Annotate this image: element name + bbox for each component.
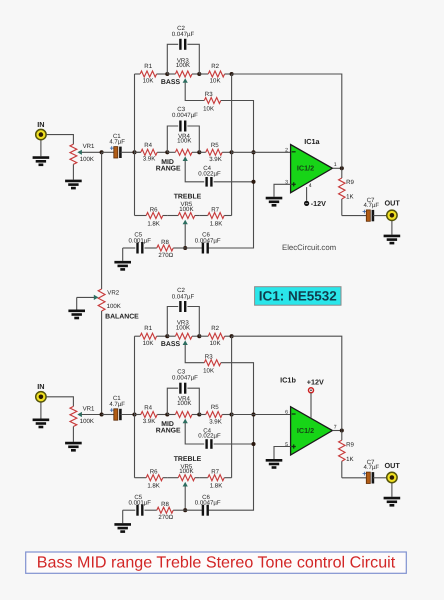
svg-text:10K: 10K [143,78,154,85]
svg-text:10K: 10K [203,105,214,112]
svg-text:100K: 100K [80,156,94,163]
svg-text:R7: R7 [211,469,219,476]
svg-text:IC1a: IC1a [304,137,320,146]
svg-text:VR1: VR1 [83,143,95,150]
svg-text:R6: R6 [150,469,158,476]
junction [251,442,255,446]
non-inverting input marker + [292,444,296,448]
wire [342,477,367,479]
svg-text:TREBLE: TREBLE [174,194,202,201]
wire [121,414,141,416]
wire [167,44,178,74]
junction [197,412,201,416]
wire [102,414,114,416]
wiper arrow VR3 [183,340,188,345]
wire [310,393,312,418]
resistor R8 270Ω [145,507,186,513]
ground [266,460,283,467]
wire [214,443,254,445]
svg-text:R2: R2 [211,63,219,70]
capacitor C4 0.022µF [207,439,212,449]
op-amp IC1b (IC1/2 NE5532) [291,407,333,455]
wire [123,247,136,249]
svg-text:2: 2 [285,147,288,153]
ground [384,236,401,243]
ground [68,311,85,318]
capacitor C4 0.022µF [207,177,212,187]
svg-text:100K: 100K [177,138,191,145]
resistor R1 10K [135,71,168,77]
ground [33,158,50,165]
resistor R3 10K [204,360,221,366]
wire [82,414,102,416]
wire [185,83,204,101]
wire [208,363,253,511]
svg-text:R7: R7 [211,207,219,214]
svg-text:+: + [110,406,114,415]
wire [72,427,74,442]
junction [165,72,169,76]
capacitor C1 4.7µF [114,147,121,158]
svg-text:10K: 10K [143,340,154,347]
svg-text:R1: R1 [144,325,152,332]
wire [82,151,102,153]
svg-text:IN: IN [37,120,44,129]
resistor R8 270Ω [145,245,186,251]
ground [114,262,131,269]
svg-text:ElecCircuit.com: ElecCircuit.com [282,243,336,252]
junction [197,72,201,76]
resistor R7 1.8K [199,213,231,219]
svg-text:10K: 10K [210,78,221,85]
ground [114,524,131,531]
wire [134,336,136,478]
svg-text:100K: 100K [176,324,190,331]
junction [100,412,104,416]
resistor R4 3.9K [135,149,168,155]
wire [232,151,291,153]
resistor R5 3.9K [199,149,231,155]
svg-text:0.001µF: 0.001µF [129,237,152,244]
svg-text:+: + [110,143,114,152]
svg-text:BASS: BASS [161,79,181,86]
junction [197,150,201,154]
potentiometer VR1 100K [70,144,77,164]
svg-text:100K: 100K [176,62,190,69]
wire [231,74,233,216]
svg-text:OUT: OUT [384,199,400,208]
wire [332,430,341,432]
wire [77,296,94,298]
svg-text:IC1/2: IC1/2 [297,164,314,173]
svg-text:6: 6 [285,410,288,416]
svg-text:1.8K: 1.8K [210,220,223,227]
terminal -12V [304,201,309,206]
svg-text:R8: R8 [161,239,169,246]
svg-text:7: 7 [334,424,337,430]
junction [230,412,234,416]
wire [306,187,308,201]
resistor R6 1.8K [135,475,168,481]
potentiometer VR4 100K MID [167,149,199,155]
inverting input marker - [292,151,296,153]
capacitor C3 0.0047µF [180,121,185,132]
svg-text:0.022µF: 0.022µF [198,433,221,440]
capacitor C7 4.7µF [366,472,373,483]
junction [230,72,234,76]
wire [122,510,124,523]
wire [167,126,178,152]
wiper arrow VR1 [77,150,82,155]
wire [391,221,393,235]
junction [100,150,104,154]
svg-text:-12V: -12V [311,199,326,208]
svg-text:BASS: BASS [161,341,181,348]
wiper arrow VR5 [183,482,188,487]
junction [230,150,234,154]
wire [76,297,78,309]
potentiometer VR5 100K TREBLE [167,475,199,481]
potentiometer VR3 100K BASS [167,333,199,339]
non-inverting input marker + [292,182,296,186]
svg-text:+: + [362,469,366,478]
wire [208,101,253,249]
junction [340,428,344,432]
svg-text:3.9K: 3.9K [209,418,222,425]
svg-text:R5: R5 [211,142,219,149]
svg-text:1.8K: 1.8K [210,483,223,490]
svg-text:10K: 10K [203,368,214,375]
junction [132,150,136,154]
svg-text:Bass MID range Treble Stereo T: Bass MID range Treble Stereo Tone contro… [37,553,396,571]
resistor R1 10K [135,333,168,339]
junction [183,508,187,512]
ground [65,443,82,450]
wire [232,414,291,416]
svg-text:IC1/2: IC1/2 [297,426,314,435]
wire [134,74,136,216]
wire [231,336,233,478]
input jack J2 IN [36,392,46,402]
wire [101,311,103,415]
svg-text:10K: 10K [210,340,221,347]
svg-text:R4: R4 [144,142,152,149]
potentiometer VR3 100K BASS [167,71,199,77]
wire [102,151,114,153]
svg-text:1: 1 [334,162,337,168]
input jack J1 IN [36,129,46,139]
wire [40,140,42,156]
wire [72,164,74,179]
capacitor C1 4.7µF [114,409,121,420]
resistor R4 3.9K [135,412,168,418]
wire [167,307,178,337]
svg-text:R5: R5 [211,404,219,411]
svg-text:TREBLE: TREBLE [174,456,202,463]
op-amp IC1a (IC1/2 NE5532) [291,145,333,193]
potentiometer VR2 100K BALANCE [98,289,105,311]
resistor R5 3.9K [199,412,231,418]
wire [184,224,186,248]
capacitor C6 0.0047µF [203,243,208,254]
resistor R2 10K [199,333,231,339]
wire [185,423,204,444]
junction [340,166,344,170]
junction [165,412,169,416]
wire [185,509,202,511]
wiper arrow VR3 [183,78,188,83]
ground [65,181,82,188]
potentiometer VR4 100K MID [167,412,199,418]
svg-text:3.9K: 3.9K [143,156,156,163]
svg-text:RANGE: RANGE [156,165,181,172]
wire [46,135,73,145]
wire [121,151,141,153]
wire [232,336,342,430]
wiper arrow VR4 [183,419,188,424]
svg-text:0.001µF: 0.001µF [129,500,152,507]
terminal +12V [309,388,314,393]
callout box IC1: NE5532 [255,287,341,306]
junction [251,412,255,416]
capacitor C5 0.001µF [138,243,143,254]
svg-text:R3: R3 [205,353,213,360]
junction [165,334,169,338]
svg-text:RANGE: RANGE [156,428,181,435]
svg-text:0.0047µF: 0.0047µF [172,112,198,119]
wire [332,167,341,169]
svg-text:0.047µF: 0.047µF [172,31,195,38]
resistor R2 10K [199,71,231,77]
wire [101,152,103,289]
svg-text:100K: 100K [80,418,94,425]
resistor R3 10K [204,98,221,104]
svg-text:100K: 100K [107,303,121,310]
wire [232,74,342,168]
junction [197,334,201,338]
wire [373,215,387,217]
svg-text:IC1b: IC1b [280,376,296,385]
wiper arrow VR5 [183,220,188,225]
svg-text:1K: 1K [346,194,353,201]
junction [251,180,255,184]
resistor R9 1K [339,431,345,478]
svg-text:VR2: VR2 [107,289,119,296]
junction [132,412,136,416]
svg-text:R3: R3 [205,91,213,98]
svg-text:1.8K: 1.8K [147,483,160,490]
ground [384,498,401,505]
junction [183,246,187,250]
title box [26,552,407,573]
junction [165,150,169,154]
svg-text:R9: R9 [346,179,354,186]
junction [251,150,255,154]
junction [230,334,234,338]
svg-text:0.0047µF: 0.0047µF [172,374,198,381]
svg-text:R2: R2 [211,325,219,332]
wire [187,307,199,337]
ground [33,420,50,427]
potentiometer VR5 100K TREBLE [167,213,199,219]
potentiometer VR1 100K [70,406,77,426]
svg-text:R4: R4 [144,404,152,411]
wire [40,402,42,418]
svg-text:0.022µF: 0.022µF [198,171,221,178]
svg-text:100K: 100K [179,206,193,213]
output jack OUT [387,472,397,482]
svg-text:+12V: +12V [307,377,324,386]
svg-text:VR1: VR1 [83,405,95,412]
wire [187,44,199,74]
resistor R7 1.8K [199,475,231,481]
wire [187,388,199,414]
wire [187,126,199,152]
wiper arrow VR4 [183,156,188,161]
svg-text:4: 4 [309,183,312,189]
wiper arrow VR2 [94,295,99,300]
svg-text:R9: R9 [346,441,354,448]
wire [391,483,393,497]
wire [373,477,387,479]
svg-text:1K: 1K [346,456,353,463]
inverting input marker - [292,413,296,415]
svg-text:270Ω: 270Ω [158,252,173,259]
svg-text:1.8K: 1.8K [147,220,160,227]
svg-text:3.9K: 3.9K [143,418,156,425]
svg-text:R8: R8 [161,501,169,508]
wire [122,248,124,261]
wire [274,184,291,197]
capacitor C5 0.001µF [138,505,143,516]
svg-text:IC1: NE5532: IC1: NE5532 [259,289,337,304]
svg-text:270Ω: 270Ω [158,514,173,521]
wire [167,388,178,414]
wire [185,247,202,249]
resistor R9 1K [339,168,345,215]
wire [342,215,367,217]
svg-text:OUT: OUT [384,461,400,470]
resistor R6 1.8K [135,213,168,219]
wire [274,447,291,460]
capacitor C2 0.047µF [180,39,185,50]
svg-text:3.9K: 3.9K [209,156,222,163]
svg-text:100K: 100K [179,468,193,475]
capacitor C7 4.7µF [366,210,373,221]
wire [46,397,73,407]
output jack OUT [387,210,397,220]
svg-text:R6: R6 [150,207,158,214]
wiper arrow VR1 [77,412,82,417]
svg-text:+: + [362,207,366,216]
capacitor C3 0.0047µF [180,383,185,394]
svg-text:100K: 100K [177,400,191,407]
svg-text:BALANCE: BALANCE [105,313,139,320]
wire [184,486,186,510]
capacitor C2 0.047µF [180,301,185,312]
capacitor C6 0.0047µF [203,505,208,516]
wire [123,509,136,511]
wire [185,345,204,363]
svg-text:R1: R1 [144,63,152,70]
svg-text:0.047µF: 0.047µF [172,293,195,300]
wire [214,181,254,183]
svg-text:IN: IN [37,382,44,391]
wire [185,161,204,182]
ground [266,198,283,205]
